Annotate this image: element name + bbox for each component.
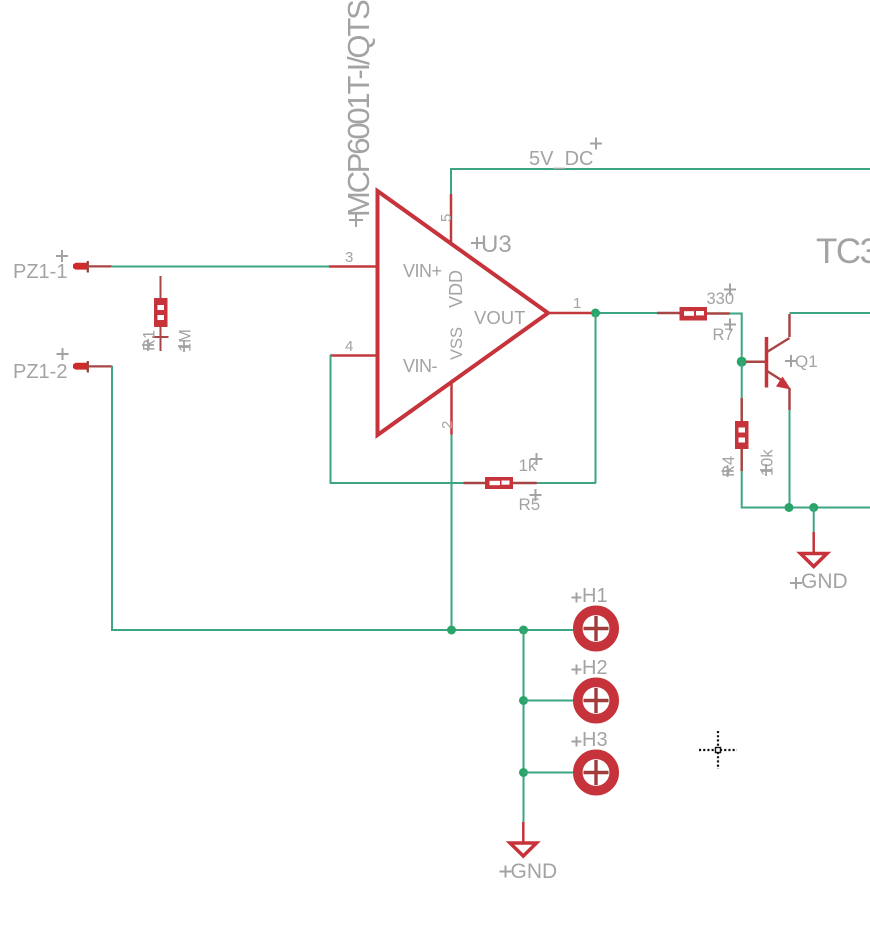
pin name VDD (rotated) <box>446 270 466 308</box>
wire gnd column down <box>523 630 525 822</box>
svg-text:5V_DC: 5V_DC <box>529 148 593 170</box>
junction H2 tap <box>519 696 528 705</box>
svg-text:VOUT: VOUT <box>474 307 525 328</box>
label 10k (rotated) <box>759 449 777 476</box>
wire emitter down <box>789 410 791 508</box>
pin name VIN- <box>403 356 438 376</box>
svg-text:3: 3 <box>345 249 353 266</box>
svg-text:VDD: VDD <box>446 270 466 308</box>
resistor R1 <box>153 276 169 351</box>
svg-text:Q1: Q1 <box>795 352 818 371</box>
svg-text:GND: GND <box>511 860 558 883</box>
pin 5 stub of U3 <box>450 194 453 244</box>
pin number 4 <box>345 338 353 355</box>
pin number 2 (rotated) <box>439 421 456 429</box>
junction hole rail at pin2 column <box>447 626 456 635</box>
svg-text:PZ1-2: PZ1-2 <box>13 361 67 383</box>
wire R4 bottom to emitter rail <box>741 471 870 508</box>
hole H2 <box>578 682 614 718</box>
svg-text:R1: R1 <box>141 330 159 351</box>
label H1 <box>572 585 608 607</box>
transistor Q1 <box>746 314 791 410</box>
label R7 <box>713 319 737 345</box>
wire gnd stub <box>813 508 815 533</box>
svg-text:VSS: VSS <box>448 327 466 360</box>
svg-text:GND: GND <box>801 570 848 593</box>
svg-text:1M: 1M <box>177 329 195 352</box>
wire collector net to right edge <box>790 312 870 314</box>
op-amp U3 triangle <box>378 191 549 435</box>
svg-text:4: 4 <box>345 338 353 355</box>
resistor R7 330 <box>657 307 730 321</box>
svg-text:5: 5 <box>438 214 455 222</box>
wire output net to junction <box>592 312 657 314</box>
wire feedback left vertical to pin 4 <box>330 355 333 484</box>
svg-text:H2: H2 <box>582 657 608 679</box>
wire feedback right vertical <box>595 313 597 483</box>
label 1M (rotated) <box>177 329 195 352</box>
wire 5V_DC vertical drop to pin 5 <box>450 168 452 194</box>
label H2 <box>572 657 608 679</box>
pin number 5 (rotated) <box>438 214 455 222</box>
wire H2 tap <box>524 700 575 702</box>
label R5 <box>519 489 542 514</box>
junction output node <box>591 309 600 318</box>
svg-text:VIN+: VIN+ <box>403 261 442 281</box>
ground GND bottom <box>510 822 537 856</box>
label 5V_DC <box>529 138 602 171</box>
junction base node <box>737 357 747 367</box>
label GND bottom <box>500 860 558 883</box>
svg-text:H3: H3 <box>582 729 608 751</box>
wire base junction down to R4 <box>741 362 743 398</box>
cursor crosshair <box>699 731 737 769</box>
hole H3 <box>578 754 614 790</box>
pin 4 stub of U3 <box>330 354 377 357</box>
label PZ1-2 <box>13 348 69 383</box>
svg-text:VIN-: VIN- <box>403 356 438 376</box>
label U3 <box>471 231 512 258</box>
label R4 (rotated) <box>720 456 738 477</box>
pin number 3 <box>345 249 353 266</box>
label R1 (rotated) <box>141 330 159 351</box>
junction H3 tap <box>519 768 528 777</box>
ground GND right <box>801 532 828 567</box>
pinhead arrow PZ1-2 <box>73 361 112 373</box>
hole H1 <box>578 610 614 646</box>
label TC3 (clipped component name) <box>816 232 870 271</box>
label GND right <box>790 570 848 593</box>
svg-text:1: 1 <box>573 295 581 312</box>
wire feedback bottom left segment <box>331 482 465 484</box>
svg-text:U3: U3 <box>481 231 512 258</box>
wire 5V_DC rail horizontal <box>451 168 870 170</box>
pinhead arrow PZ1-1 <box>73 261 112 273</box>
wire H3 tap <box>524 772 575 774</box>
svg-text:H1: H1 <box>582 585 608 607</box>
pin 2 stub of U3 <box>450 382 453 435</box>
pin name VIN+ <box>403 261 442 281</box>
label 1k <box>519 453 543 475</box>
wire PZ1-2 net down and across to hole rail <box>111 366 574 630</box>
wire feedback bottom right segment <box>537 482 597 484</box>
pin name VOUT <box>474 307 525 328</box>
pin 1 output stub of U3 <box>548 312 592 315</box>
svg-text:10k: 10k <box>759 449 777 476</box>
junction gnd tap node <box>809 503 818 512</box>
resistor R5 <box>464 477 537 489</box>
label PZ1-1 <box>13 250 68 283</box>
wire PZ1-1 net <box>111 266 329 268</box>
wire pin 2 down to hole rail <box>451 435 453 631</box>
label MCP6001T-I/QTS (rotated) <box>341 0 376 227</box>
svg-text:R4: R4 <box>720 456 738 477</box>
svg-text:PZ1-1: PZ1-1 <box>13 261 67 283</box>
pin number 1 <box>573 295 581 312</box>
wire base net corner <box>730 313 742 362</box>
svg-text:TC3: TC3 <box>816 232 870 271</box>
label 330 <box>707 284 737 309</box>
pin 3 stub of U3 <box>329 265 377 268</box>
label Q1 <box>785 352 818 371</box>
junction hole rail at gnd column <box>519 626 528 635</box>
svg-text:MCP6001T-I/QTS: MCP6001T-I/QTS <box>341 0 376 217</box>
svg-text:2: 2 <box>439 421 456 429</box>
pin name VSS (rotated) <box>448 327 466 360</box>
junction emitter node <box>785 503 794 512</box>
label H3 <box>572 729 608 751</box>
svg-text:R5: R5 <box>519 495 541 514</box>
resistor R4 <box>735 398 749 471</box>
